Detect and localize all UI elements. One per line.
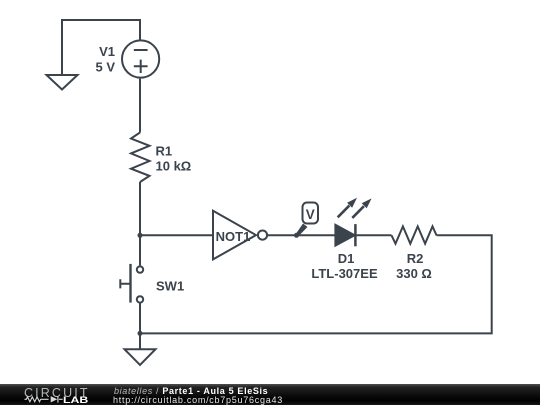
inverter NOT1 [213,211,267,260]
svg-text:R1: R1 [156,144,173,159]
LED D1 [335,198,371,247]
wire R2 to bottom rail [140,235,492,333]
footer url [113,396,283,405]
svg-text:SW1: SW1 [156,279,184,294]
voltage source V1 [122,40,159,77]
ground GND2 [125,349,156,365]
voltmeter probe V [296,203,318,237]
node C junction [138,331,143,336]
wire D1 to R2 [355,234,391,236]
svg-text:330 Ω: 330 Ω [396,266,432,281]
wire R1 to SW1 [139,182,141,265]
svg-text:D1: D1 [338,251,355,266]
svg-text:R2: R2 [407,251,424,266]
svg-text:V1: V1 [99,44,115,59]
wire NOT1 output to D1 [267,234,335,236]
wire node A to NOT1 input [140,234,213,236]
wire SW1 to ground [139,303,141,349]
svg-text:5 V: 5 V [95,59,115,74]
footer title [114,387,268,396]
resistor R1 [131,133,150,183]
svg-text:LTL-307EE: LTL-307EE [311,266,378,281]
switch SW1 [120,264,143,303]
svg-text:LAB: LAB [63,395,88,405]
ground GND1 [47,75,78,90]
resistor R2 [392,226,437,243]
node B junction [294,233,299,238]
wire ground to V1 top [62,20,140,75]
svg-text:10 kΩ: 10 kΩ [156,159,192,174]
wire V1 to R1 [139,79,141,133]
CircuitLab logo [0,384,100,405]
node A junction [138,233,143,238]
svg-text:NOT1: NOT1 [216,229,251,244]
svg-text:V: V [306,207,315,222]
